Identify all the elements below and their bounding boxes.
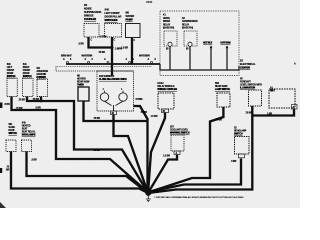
svg-text:.75 BR: .75 BR xyxy=(32,98,39,101)
wire S30 route xyxy=(12,97,149,193)
wire illumination unit joins xyxy=(252,109,294,116)
svg-text:HOT RLY: HOT RLY xyxy=(203,43,213,45)
svg-text:(BASE RH): (BASE RH) xyxy=(182,27,193,30)
svg-text:HEATED: HEATED xyxy=(22,125,31,128)
svg-text:1 BR: 1 BR xyxy=(267,113,272,116)
junction S31/W3 xyxy=(40,100,43,103)
hot arrow 1 xyxy=(210,46,213,49)
svg-text:DOOR: DOOR xyxy=(23,73,30,75)
motor circle 1 xyxy=(100,93,108,101)
svg-text:A: A xyxy=(126,58,128,61)
rail inside electrical center xyxy=(160,64,239,70)
ground bus xyxy=(66,63,160,65)
svg-text:HOT RUN: HOT RUN xyxy=(221,43,231,45)
svg-text:SLIDE: SLIDE xyxy=(9,127,16,129)
svg-text:SWITCH: SWITCH xyxy=(234,134,243,136)
svg-text:ELECTRICAL: ELECTRICAL xyxy=(240,62,256,66)
svg-text:SWITCH: SWITCH xyxy=(7,76,16,78)
svg-text:(BASE RH): (BASE RH) xyxy=(163,27,174,30)
svg-text:TIMER: TIMER xyxy=(77,85,84,87)
svg-text:RELAY MODULE: RELAY MODULE xyxy=(158,85,175,88)
svg-text:.75 BR: .75 BR xyxy=(93,117,100,120)
hot arrow 2 xyxy=(226,46,229,49)
relay K2 sub-box xyxy=(184,31,197,46)
svg-text:.75 BR: .75 BR xyxy=(245,112,252,115)
wire S40 down through bus into K33 box xyxy=(111,37,113,76)
svg-text:.75 BR: .75 BR xyxy=(215,119,222,122)
svg-text:K33 SUNROOF: K33 SUNROOF xyxy=(99,76,115,78)
svg-text:.5 BR: .5 BR xyxy=(78,43,84,46)
wire W3 joins S31 xyxy=(40,97,42,102)
box S2 headlamp switch xyxy=(235,137,250,155)
wire S57 coolant switch xyxy=(148,155,177,194)
svg-text:C: C xyxy=(91,40,93,42)
svg-text:WHT/BRN: WHT/BRN xyxy=(82,55,93,58)
svg-text:LAMP SWITCH: LAMP SWITCH xyxy=(215,88,231,91)
svg-text:FRONT: FRONT xyxy=(23,70,31,72)
svg-text:CLOSE RELAY/CIRC BRKR: CLOSE RELAY/CIRC BRKR xyxy=(99,78,127,81)
svg-text:.75 BR: .75 BR xyxy=(18,99,25,102)
svg-text:GROUND: GROUND xyxy=(37,74,47,76)
box N7 fore/aft xyxy=(249,90,262,106)
relay K1 wire to bus xyxy=(169,47,171,71)
svg-text:RELAY: RELAY xyxy=(163,23,171,26)
hot feed wire 2 xyxy=(226,46,228,70)
svg-text:© 1997 MITCHELL INTERNATIONAL: © 1997 MITCHELL INTERNATIONAL ALL RIGHTS… xyxy=(154,196,244,199)
svg-text:FORE/AFT: FORE/AFT xyxy=(240,81,251,84)
junction S40 xyxy=(111,46,114,49)
svg-text:COOLANT LEVEL: COOLANT LEVEL xyxy=(170,129,189,132)
wire heated seat switch 2 xyxy=(27,152,149,194)
svg-text:WIPER: WIPER xyxy=(163,21,170,23)
svg-text:A: A xyxy=(294,63,296,66)
svg-text:1.5 BR: 1.5 BR xyxy=(151,115,158,118)
wire motors common xyxy=(105,101,124,111)
hot feed wire 1 xyxy=(210,46,212,70)
wire from R1 box to S40 wire xyxy=(89,37,113,48)
K33 pin tab xyxy=(111,111,117,115)
svg-text:85: 85 xyxy=(166,49,169,51)
svg-text:SEAT RELAY,: SEAT RELAY, xyxy=(22,131,36,134)
svg-text:A: A xyxy=(148,58,150,61)
wire defogger timer xyxy=(84,101,148,121)
box heated seat sw1 xyxy=(6,140,16,152)
box M6 pump xyxy=(126,24,141,38)
svg-text:R1: R1 xyxy=(84,3,88,7)
scan noise overlay xyxy=(0,0,1,1)
svg-text:C: C xyxy=(114,40,116,42)
svg-text:BRIDGE: BRIDGE xyxy=(84,14,94,18)
svg-text:WATER: WATER xyxy=(126,14,135,18)
svg-text:A: A xyxy=(63,58,65,61)
bus pin 2 xyxy=(88,61,90,63)
svg-text:LEFT: LEFT xyxy=(7,67,13,69)
svg-text:COUPLER: COUPLER xyxy=(84,17,96,21)
wire headlamp switch xyxy=(148,159,241,193)
svg-text:ROOF: ROOF xyxy=(9,130,16,132)
dashed compartment line under bus xyxy=(57,65,152,67)
svg-text:K1: K1 xyxy=(163,15,167,17)
bus pin 5 xyxy=(151,61,153,63)
box K33 sunroof relay module xyxy=(97,71,134,111)
box S31 xyxy=(23,78,34,97)
bus pin 1 xyxy=(67,61,69,63)
svg-text:.75 BR: .75 BR xyxy=(98,51,105,54)
svg-text:BR: BR xyxy=(6,169,10,172)
box R1 noise suppressor xyxy=(84,24,99,38)
motor circle 2 xyxy=(119,93,127,101)
svg-text:ILLUMINATION: ILLUMINATION xyxy=(240,87,256,90)
big dashed box E2 electrical center xyxy=(160,11,239,76)
ground point G105 xyxy=(145,190,151,202)
svg-text:.75 BR: .75 BR xyxy=(93,149,100,152)
svg-text:S2: S2 xyxy=(234,128,237,130)
svg-text:BRN WHT: BRN WHT xyxy=(61,55,72,58)
svg-text:6: 6 xyxy=(155,59,157,61)
box S40 door pillar switches xyxy=(105,24,122,38)
svg-text:E2: E2 xyxy=(240,59,244,63)
svg-text:1.5 BR: 1.5 BR xyxy=(121,47,128,50)
wire relay module xyxy=(148,113,165,194)
svg-text:ADHESION: ADHESION xyxy=(37,70,49,73)
svg-text:S91: S91 xyxy=(9,124,14,126)
svg-text:.75 BR: .75 BR xyxy=(140,111,147,114)
svg-text:.75 BR: .75 BR xyxy=(16,107,23,110)
relay K2 wire to bus xyxy=(189,47,191,71)
svg-text:NOISE: NOISE xyxy=(84,7,92,11)
svg-text:SEAT: SEAT xyxy=(22,128,28,131)
svg-text:WARNING SWITCH: WARNING SWITCH xyxy=(170,132,190,135)
svg-text:REAR WDW: REAR WDW xyxy=(215,85,228,88)
box W3 xyxy=(37,79,48,97)
svg-text:RUBBER: RUBBER xyxy=(37,77,47,79)
bus pin 3 xyxy=(107,61,109,63)
svg-text:FRONT: FRONT xyxy=(7,70,15,72)
svg-text:SWITCH: SWITCH xyxy=(23,76,32,78)
wire K33 right exit to main vertical xyxy=(134,106,148,193)
svg-text:N8: N8 xyxy=(77,76,81,78)
wire fore/aft switch xyxy=(148,106,252,193)
svg-text:WITH LAMPS: WITH LAMPS xyxy=(22,134,36,137)
svg-text:C: C xyxy=(134,40,136,42)
svg-text:BRIDGE COUPLER: BRIDGE COUPLER xyxy=(158,89,178,91)
svg-text:DOOR PILLAR: DOOR PILLAR xyxy=(105,15,122,19)
svg-text:6: 6 xyxy=(92,59,94,61)
svg-text:RIGHT: RIGHT xyxy=(23,67,30,69)
svg-text:S40: S40 xyxy=(105,8,110,12)
svg-text:1.5 BR: 1.5 BR xyxy=(163,155,170,158)
wire S31 + W3 route xyxy=(27,97,148,194)
dashed divider over defogger xyxy=(56,66,134,71)
svg-text:S31: S31 xyxy=(23,64,28,66)
relay K1 sub-box xyxy=(164,31,177,46)
svg-text:SWITCHES: SWITCHES xyxy=(105,18,118,22)
svg-text:6: 6 xyxy=(133,59,135,61)
svg-text:M6: M6 xyxy=(126,11,130,15)
wire S58 rear window switch xyxy=(148,107,223,192)
svg-text:.5 BR: .5 BR xyxy=(31,159,37,162)
svg-text:K1/K2: K1/K2 xyxy=(158,83,165,85)
svg-text:HEATED: HEATED xyxy=(77,78,86,81)
svg-text:.5 BR: .5 BR xyxy=(231,160,237,163)
svg-text:.5 BRN: .5 BRN xyxy=(99,36,107,39)
svg-text:6: 6 xyxy=(70,59,72,61)
svg-text:A: A xyxy=(104,58,106,61)
svg-text:CENTER: CENTER xyxy=(240,66,250,70)
svg-text:.5 BR: .5 BR xyxy=(4,103,10,106)
svg-text:A: A xyxy=(85,58,87,61)
svg-text:N7: N7 xyxy=(240,79,244,81)
svg-text:W3: W3 xyxy=(37,68,41,70)
svg-text:.5 BR: .5 BR xyxy=(35,107,41,110)
svg-text:G105: G105 xyxy=(153,191,159,193)
svg-text:SWITCH: SWITCH xyxy=(9,133,18,135)
svg-text:HORN,: HORN, xyxy=(163,18,170,20)
box S58 heated rear window switch xyxy=(217,93,230,107)
box N8 defogger timer xyxy=(78,87,89,101)
wire heated seat switch 1 xyxy=(11,152,148,194)
svg-text:SUPPRESSOR,: SUPPRESSOR, xyxy=(84,10,102,14)
svg-text:.5 BRN: .5 BRN xyxy=(135,98,143,101)
svg-text:DOOR: DOOR xyxy=(7,73,14,75)
svg-text:#9038: #9038 xyxy=(146,1,153,4)
box S30 xyxy=(7,78,17,97)
left edge artifacts xyxy=(0,103,2,109)
svg-text:85: 85 xyxy=(186,49,189,51)
svg-text:LEVEL SWITCH WITH: LEVEL SWITCH WITH xyxy=(240,85,262,87)
box A1 illumination xyxy=(269,89,295,108)
wire xyxy=(11,37,294,193)
wire M6 down to bus xyxy=(131,38,133,64)
box S57 coolant level xyxy=(171,135,184,151)
svg-text:K2: K2 xyxy=(182,18,186,20)
bus pin 4 xyxy=(129,61,131,63)
svg-text:S58: S58 xyxy=(215,83,220,85)
svg-text:REAR WDW: REAR WDW xyxy=(77,81,90,84)
svg-text:RELAY: RELAY xyxy=(182,23,190,26)
wire K33 pin down xyxy=(114,115,149,194)
svg-text:S45: S45 xyxy=(22,122,27,125)
svg-text:S30: S30 xyxy=(7,64,12,66)
svg-text:S57: S57 xyxy=(170,127,175,129)
svg-text:LEFT FRONT: LEFT FRONT xyxy=(105,11,121,15)
svg-text:WHT/BRN: WHT/BRN xyxy=(139,55,150,58)
svg-text:HEADLAMP: HEADLAMP xyxy=(234,130,247,133)
box heated seat sw2 xyxy=(22,140,32,152)
svg-text:COMPRESSOR: COMPRESSOR xyxy=(182,21,198,23)
svg-text:PUMP: PUMP xyxy=(126,18,133,22)
box K1/K2 relay module xyxy=(158,93,174,109)
